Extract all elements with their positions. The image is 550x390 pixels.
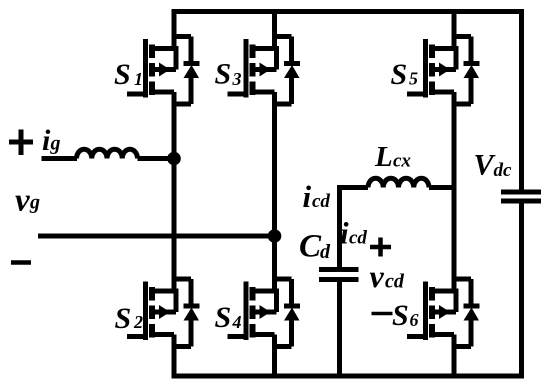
wire: bottom DC bus rail (172, 374, 522, 379)
svg-text:5: 5 (409, 69, 418, 89)
inductor in ig input line (77, 149, 138, 158)
svg-text:i: i (303, 179, 312, 214)
inductor Lcx (368, 178, 429, 187)
svg-text:4: 4 (232, 312, 242, 332)
plus sign of vcd polarity (370, 238, 391, 257)
transistor S1 (MOSFET) (127, 39, 176, 98)
node junction dot at leg1 midpoint (167, 152, 181, 166)
capacitor Vdc (501, 192, 541, 201)
wire: Lcx to leg3 midpoint (429, 185, 454, 190)
body diode of S2 (172, 279, 200, 347)
svg-text:g: g (50, 133, 61, 155)
svg-text:6: 6 (410, 310, 419, 330)
wire: Vdc branch top (519, 9, 524, 190)
body diode of S5 (452, 37, 480, 105)
svg-text:S: S (215, 301, 232, 334)
svg-text:S: S (115, 302, 132, 335)
svg-text:g: g (29, 192, 40, 214)
transistor S4 (MOSFET) (228, 282, 277, 341)
svg-text:cd: cd (349, 228, 367, 249)
wire: ig input wire right of inductor (138, 156, 175, 161)
node junction dot at leg2 midpoint (268, 229, 282, 243)
wire: Vdc branch bottom (519, 203, 524, 379)
wire: Cd to bottom rail (337, 280, 342, 376)
wire: top DC bus rail (172, 9, 522, 14)
body diode of S3 (272, 37, 300, 105)
wire: leg3 middle (S5 source to S6 drain) (452, 92, 457, 291)
transistor S5 (MOSFET) (407, 39, 456, 98)
svg-text:2: 2 (133, 312, 143, 332)
svg-text:S: S (215, 58, 232, 91)
minus sign of vg source polarity (11, 260, 31, 265)
body diode of S1 (172, 37, 200, 105)
transistor S2 (MOSFET) (127, 282, 176, 341)
wire: leg1 drain stub from top rail to S1 (172, 12, 177, 49)
minus sign of vcd polarity (372, 312, 393, 316)
plus sign of vg source polarity (9, 130, 33, 156)
wire: leg1 middle (S1 source to S2 drain) (172, 92, 177, 291)
svg-text:C: C (299, 229, 322, 265)
svg-text:v: v (370, 258, 385, 294)
wire: leg2 middle (S3 source to S4 drain) (272, 92, 277, 291)
wire: Cd branch riser and corner to Lcx (340, 188, 369, 270)
body diode of S6 (452, 279, 480, 347)
svg-text:cx: cx (393, 151, 411, 172)
wire: leg2 drain stub from top rail to S3 (272, 12, 277, 49)
svg-text:i: i (340, 216, 349, 251)
svg-text:cd: cd (312, 191, 330, 212)
svg-text:L: L (374, 141, 393, 173)
svg-text:dc: dc (494, 160, 513, 181)
body diode of S4 (272, 279, 300, 347)
wire: ig input wire left of inductor (42, 156, 78, 161)
transistor S6 (MOSFET) (407, 282, 456, 341)
wire: leg3 bottom (S6 source to bottom rail) (452, 335, 457, 379)
wire: leg3 drain stub from top rail to S5 (452, 12, 457, 49)
svg-text:3: 3 (232, 69, 242, 89)
wire: leg1 bottom (S2 source to bottom rail) (172, 335, 177, 379)
svg-text:S: S (391, 58, 408, 91)
svg-text:1: 1 (134, 69, 143, 89)
wire: leg2 bottom (S4 source to bottom rail) (272, 335, 277, 379)
svg-text:S: S (114, 58, 131, 91)
svg-text:S: S (392, 299, 409, 332)
capacitor Cd (319, 270, 359, 280)
svg-text:d: d (320, 241, 331, 263)
transistor S3 (MOSFET) (228, 39, 277, 98)
svg-text:cd: cd (385, 271, 405, 293)
wire: vg return wire to leg2 midpoint (38, 234, 275, 239)
svg-text:v: v (15, 183, 30, 219)
